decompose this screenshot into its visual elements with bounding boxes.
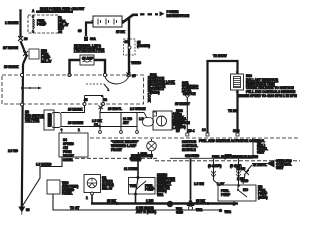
svg-text:FRONT: FRONT: [111, 148, 122, 152]
svg-text:PPT: PPT: [225, 154, 231, 158]
svg-text:MO: MO: [243, 188, 249, 192]
svg-text:PUMP: PUMP: [221, 193, 231, 197]
svg-text:W11: W11: [157, 193, 164, 197]
svg-text:1.5 BN: 1.5 BN: [194, 182, 205, 186]
svg-text:PROTECTION FUSE: PROTECTION FUSE: [74, 48, 104, 52]
svg-text:15 BK: 15 BK: [107, 199, 117, 203]
svg-text:PUMP: PUMP: [37, 23, 47, 27]
svg-text:(B-13/75): (B-13/75): [208, 164, 221, 168]
svg-text:GRD: GRD: [176, 211, 184, 215]
svg-text:TO ST: TO ST: [70, 206, 79, 210]
svg-text:MAIN POWER FEED CIRCUIT: MAIN POWER FEED CIRCUIT: [40, 7, 84, 11]
svg-text:(S124): (S124): [150, 91, 160, 95]
svg-text:ENGINE SPEED TO 4200 RPM 1 IN: ENGINE SPEED TO 4200 RPM 1 IN RPM: [237, 94, 297, 98]
svg-text:2V RD/GN: 2V RD/GN: [3, 46, 19, 50]
svg-text:TR BK: TR BK: [228, 109, 238, 113]
svg-text:14: 14: [202, 128, 206, 132]
svg-text:25 BK/WH: 25 BK/WH: [68, 121, 84, 125]
svg-text:A2: A2: [58, 30, 62, 34]
svg-text:25 RD/BK: 25 RD/BK: [68, 108, 83, 112]
svg-text:S16/11: S16/11: [63, 158, 73, 162]
svg-text:ON FUSE: ON FUSE: [25, 118, 39, 122]
svg-text:16-8: 16-8: [233, 129, 240, 133]
svg-text:W11: W11: [196, 208, 203, 212]
svg-text:1 RD/WH: 1 RD/WH: [5, 21, 19, 25]
svg-text:15-4: 15-4: [188, 129, 195, 133]
svg-text:(S124): (S124): [258, 196, 268, 200]
svg-text:15: 15: [176, 129, 180, 133]
svg-text:UNIT: UNIT: [257, 151, 264, 155]
svg-text:30A: 30A: [90, 37, 97, 41]
svg-text:30: 30: [24, 37, 28, 41]
svg-text:15 RD/BK: 15 RD/BK: [4, 65, 19, 69]
svg-text:PUMP: PUMP: [145, 188, 155, 192]
svg-text:15 AMP: 15 AMP: [82, 57, 94, 61]
svg-text:RELAY: RELAY: [41, 60, 52, 64]
svg-text:2.5 RD: 2.5 RD: [8, 149, 19, 153]
svg-text:LAMP: LAMP: [138, 152, 148, 156]
svg-text:FUEL AND IGNITION ACTUATOR CON: FUEL AND IGNITION ACTUATOR CONTROL: [199, 139, 265, 143]
svg-text:BK/WT: BK/WT: [130, 157, 140, 161]
svg-text:T5 RD: T5 RD: [131, 61, 141, 65]
svg-text:45: 45: [84, 98, 88, 102]
svg-text:ANT B (S124): ANT B (S124): [136, 210, 156, 214]
svg-text:KICK-DOWN: KICK-DOWN: [239, 155, 259, 159]
svg-text:30: 30: [125, 40, 129, 44]
svg-text:30: 30: [26, 208, 30, 212]
svg-text:T4 BU: T4 BU: [236, 167, 246, 171]
svg-text:GROUND: GROUND: [185, 154, 200, 158]
svg-text:15 BK: 15 BK: [116, 30, 126, 34]
svg-text:DISTRIBUTION: DISTRIBUTION: [167, 14, 190, 18]
svg-text:15: 15: [132, 74, 136, 78]
svg-text:(RD/WH): (RD/WH): [137, 44, 150, 48]
svg-text:RELAY: RELAY: [102, 187, 113, 191]
svg-text:W12: W12: [225, 210, 232, 214]
svg-text:15 BK: 15 BK: [196, 199, 206, 203]
svg-text:2.5 BU/GN: 2.5 BU/GN: [130, 107, 146, 111]
svg-text:/WT: /WT: [123, 121, 129, 125]
svg-text:15 BK/WT: 15 BK/WT: [175, 102, 190, 106]
svg-text:21 BT/RD: 21 BT/RD: [124, 167, 139, 171]
svg-text:TR BK/W: TR BK/W: [213, 54, 227, 58]
svg-text:PANEL: PANEL: [62, 192, 73, 196]
svg-text:1: 1: [78, 128, 80, 132]
svg-text:30: 30: [78, 29, 82, 33]
svg-text:1: 1: [86, 196, 88, 200]
svg-text:THE: THE: [130, 184, 136, 188]
svg-text:50: 50: [104, 98, 108, 102]
svg-text:25 RD/YL: 25 RD/YL: [108, 107, 122, 111]
svg-text:MODULE: MODULE: [182, 148, 196, 152]
svg-text:1.5 BK/RD: 1.5 BK/RD: [36, 163, 52, 167]
svg-text:/YL: /YL: [94, 123, 99, 127]
svg-text:UNIT: UNIT: [276, 166, 283, 170]
